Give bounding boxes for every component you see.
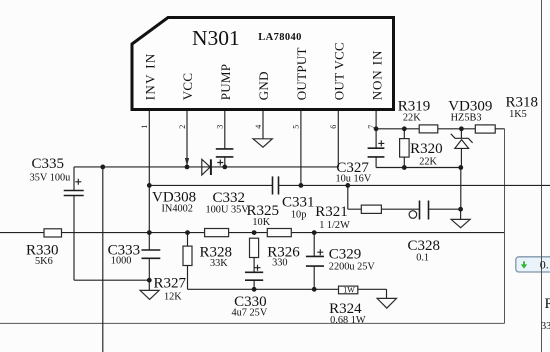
- wire: C331 feedback line y=185.4: [149, 184, 272, 186]
- junction arrow pin2: [185, 158, 189, 166]
- capacitor C331: [273, 176, 315, 220]
- svg-text:100U 35V: 100U 35V: [206, 205, 250, 216]
- ground below C333 node: [140, 280, 159, 299]
- ground right of C328: [451, 209, 470, 228]
- node: junction dots: [100, 126, 463, 291]
- svg-text:R: R: [545, 296, 550, 312]
- svg-text:LA78040: LA78040: [258, 32, 302, 43]
- svg-text:C329: C329: [329, 247, 362, 263]
- capacitor C335: [30, 156, 84, 280]
- svg-text:2: 2: [178, 125, 187, 129]
- svg-text:1000: 1000: [111, 255, 132, 266]
- svg-text:R320: R320: [410, 141, 443, 157]
- svg-text:C332: C332: [213, 190, 246, 206]
- svg-text:5K6: 5K6: [35, 256, 53, 267]
- svg-text:22K: 22K: [403, 113, 421, 124]
- resistor R326: [267, 229, 300, 269]
- svg-text:4: 4: [254, 125, 263, 129]
- svg-text:22K: 22K: [419, 157, 437, 168]
- svg-text:5: 5: [292, 125, 301, 129]
- svg-text:2200u 25V: 2200u 25V: [329, 262, 376, 273]
- svg-text:PUMP: PUMP: [218, 64, 233, 101]
- svg-text:NON IN: NON IN: [369, 50, 384, 101]
- svg-text:0.1: 0.1: [416, 252, 429, 263]
- svg-text:35V 100u: 35V 100u: [30, 173, 71, 184]
- svg-text:0.1: 0.1: [540, 258, 550, 272]
- svg-text:OUT VCC: OUT VCC: [332, 42, 347, 100]
- capacitor C332: [206, 149, 250, 216]
- op-amp U1: IC N301 LA78040 body: [132, 18, 394, 110]
- svg-text:3: 3: [216, 125, 225, 129]
- wire: R319 line y=128.8: [376, 128, 504, 130]
- wire: right edge vertical over widget: [541, 255, 543, 274]
- wire: pin 5 lead: [300, 111, 302, 185]
- svg-text:6: 6: [329, 125, 338, 129]
- wire: pin 1 lead: [148, 111, 150, 233]
- svg-text:1: 1: [140, 125, 149, 129]
- svg-text:33K: 33K: [210, 258, 228, 269]
- svg-text:330: 330: [272, 258, 287, 269]
- wire: C330 bottom line y=289.3: [188, 288, 387, 290]
- svg-text:R327: R327: [154, 276, 187, 292]
- resistor R327: [154, 233, 193, 303]
- ground at pin 4: [253, 139, 272, 147]
- diode VD308: [152, 159, 211, 214]
- svg-text:1 1/2W: 1 1/2W: [319, 220, 350, 231]
- svg-text:OUTPUT: OUTPUT: [294, 47, 309, 100]
- resistor R320: [400, 129, 443, 168]
- wire: pin 7 lead: [375, 111, 377, 148]
- resistor R324 with 1W box: [329, 285, 396, 326]
- wire: pin 4 lead: [262, 111, 264, 139]
- zener diode VD309: [448, 99, 492, 210]
- svg-text:C331: C331: [282, 195, 315, 211]
- svg-text:1K5: 1K5: [509, 109, 527, 120]
- svg-text:1W: 1W: [343, 285, 355, 294]
- resistor R318: [475, 95, 538, 134]
- resistor R319: [398, 99, 438, 133]
- capacitor C327: [336, 140, 385, 184]
- capacitor C328 with terminal circle: [408, 201, 441, 264]
- resistor R330: [26, 229, 62, 267]
- svg-text:GND: GND: [256, 71, 271, 100]
- wire: R321/C328 line y=209.2: [348, 208, 420, 210]
- svg-text:IN4002: IN4002: [162, 204, 193, 215]
- wire: right edge vertical x=541.5: [541, 0, 543, 352]
- wire: left bus vertical x=102.8: [102, 167, 104, 352]
- svg-text:10u 16V: 10u 16V: [336, 174, 372, 185]
- download widget overlay: [516, 257, 550, 272]
- svg-text:C335: C335: [32, 156, 65, 172]
- wire: C327/R320/VD309 bottom line y=167.5: [376, 167, 461, 169]
- svg-text:10p: 10p: [291, 209, 306, 220]
- svg-text:10K: 10K: [252, 217, 270, 228]
- svg-text:12K: 12K: [164, 292, 182, 303]
- svg-text:VCC: VCC: [180, 73, 195, 101]
- svg-text:0.68 1W: 0.68 1W: [330, 315, 366, 326]
- resistor R328: [200, 229, 233, 270]
- wire: pin 2 lead: [186, 111, 188, 167]
- wire: R321 drop from C331 line: [347, 185, 349, 209]
- wire: pin 3 lead: [224, 111, 226, 149]
- svg-text:HZ5B3: HZ5B3: [451, 113, 482, 124]
- svg-text:33: 33: [541, 321, 550, 332]
- wire: VD308 supply line y=166.9: [74, 166, 338, 168]
- svg-text:INV IN: INV IN: [143, 52, 158, 100]
- wire: main horizontal bus y=232.6: [0, 232, 505, 234]
- wire: C335 bottom run to C333 node: [74, 279, 149, 281]
- wire: pin 6 lead: [337, 111, 339, 167]
- svg-text:R321: R321: [315, 204, 348, 220]
- resistor R321: [315, 204, 381, 231]
- wire: right frame vertical x=504.5: [504, 129, 506, 324]
- wire: bottom frame line y=323.1: [0, 322, 505, 324]
- capacitor C333: [108, 233, 161, 281]
- capacitor C329: [306, 233, 376, 290]
- svg-text:N301: N301: [192, 26, 240, 50]
- resistor R325: [247, 203, 280, 272]
- capacitor C330: [232, 265, 268, 319]
- svg-text:4u7 25V: 4u7 25V: [232, 308, 268, 319]
